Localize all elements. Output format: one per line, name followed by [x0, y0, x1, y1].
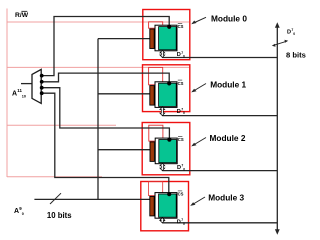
- data line module 0: [162, 57, 277, 59]
- memory chip icon module 0: [150, 24, 185, 59]
- arrow to module 3: [193, 197, 206, 205]
- chip connector bar: [150, 29, 154, 49]
- decoder input wire A11..A10: [21, 83, 33, 85]
- decoder output dot 2: [40, 86, 44, 90]
- svg-text:R/W: R/W: [15, 12, 29, 19]
- memory chip icon module 2: [150, 136, 185, 171]
- address bus A9..A0 horizontal: [34, 198, 150, 200]
- memory bank pink outline vertical: [6, 9, 8, 178]
- address bus slash: [50, 193, 61, 204]
- module 2 inner red mark: [149, 125, 163, 141]
- svg-text:Module 2: Module 2: [210, 133, 246, 143]
- module 1 red box: [143, 65, 190, 112]
- CS pin dot: [167, 25, 171, 29]
- data double arrow module 0: [160, 50, 165, 57]
- svg-text:Module 3: Module 3: [208, 193, 244, 203]
- data line module 2: [162, 170, 277, 172]
- svg-text:Module 0: Module 0: [211, 14, 247, 24]
- svg-text:0: 0: [22, 212, 24, 216]
- row separator pink line 3: [7, 124, 116, 126]
- row separator pink line 2: [7, 66, 189, 68]
- decoder output dot 3: [40, 91, 44, 95]
- data double arrow module 3: [160, 218, 165, 223]
- arrow to module 2: [194, 138, 207, 146]
- chip face: [159, 27, 177, 50]
- wire CS module 3 from decoder output 3: [42, 93, 169, 194]
- address branch module 0: [98, 38, 151, 40]
- module 0 red box: [143, 10, 190, 60]
- chip body: [155, 25, 177, 51]
- address branch module 1: [98, 93, 151, 95]
- address branch module 2: [98, 149, 151, 151]
- wire CS module 0 from decoder output 0: [42, 17, 169, 76]
- svg-text:10: 10: [22, 95, 26, 99]
- data bus vertical D7..0: [276, 26, 278, 232]
- data double arrow module 1: [160, 107, 165, 116]
- row separator pink line 4: [7, 176, 102, 178]
- module 1 inner red mark: [149, 67, 163, 84]
- row separator pink line 1: [7, 21, 189, 23]
- module 0 inner red mark: [149, 22, 163, 28]
- module 3 inner red mark: [149, 181, 163, 195]
- arrow to module 1: [194, 84, 207, 92]
- data line module 3: [162, 222, 277, 224]
- svg-text:8 bits: 8 bits: [286, 50, 306, 59]
- wire CS module 2 from decoder output 2: [42, 88, 169, 140]
- decoder output dot 1: [40, 80, 44, 84]
- wire CS module 1 from decoder output 1: [42, 73, 169, 83]
- data bus width slash double arrow: [274, 41, 287, 45]
- svg-text:Module 1: Module 1: [210, 80, 246, 90]
- memory chip icon module 3: [150, 191, 185, 226]
- module 3 red box: [141, 182, 189, 231]
- decoder 2-to-4 trapezoid: [32, 69, 41, 103]
- svg-text:A: A: [12, 91, 17, 98]
- memory chip icon module 1: [150, 80, 185, 115]
- data double arrow module 2: [160, 163, 165, 170]
- svg-text:10 bits: 10 bits: [47, 211, 72, 220]
- data line module 1: [162, 115, 277, 117]
- svg-text:0: 0: [293, 32, 295, 36]
- svg-text:A: A: [14, 208, 19, 215]
- decoder output dot 0: [40, 74, 44, 78]
- svg-text:CS: CS: [178, 24, 184, 29]
- module 2 red box: [142, 123, 190, 175]
- svg-text:11: 11: [17, 88, 22, 93]
- arrow to module 0: [194, 17, 207, 23]
- address riser vertical: [97, 39, 99, 200]
- svg-text:0: 0: [183, 55, 185, 59]
